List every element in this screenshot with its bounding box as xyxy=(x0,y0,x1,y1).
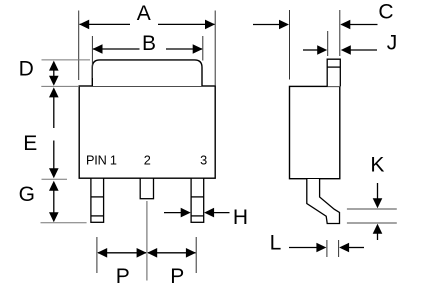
side view mounting tab xyxy=(327,59,340,86)
svg-text:K: K xyxy=(370,154,384,177)
side view package body xyxy=(290,86,340,178)
dimension P arrows xyxy=(97,248,196,258)
dimension D extension lines xyxy=(41,60,90,87)
pin 2 center line xyxy=(146,201,148,281)
dimension H arrows xyxy=(164,208,230,218)
svg-text:D: D xyxy=(19,57,34,80)
svg-text:L: L xyxy=(270,232,282,255)
dimension L arrows xyxy=(289,243,364,253)
svg-text:H: H xyxy=(233,206,248,229)
svg-text:C: C xyxy=(378,1,393,24)
pin 2 lead xyxy=(140,178,153,199)
pin 3 lead xyxy=(191,178,204,222)
front view mounting tab xyxy=(92,60,202,86)
dimension J extension line xyxy=(327,31,329,56)
dimension A arrows xyxy=(80,23,215,25)
svg-text:P: P xyxy=(170,265,184,285)
pin 1 lead xyxy=(91,178,104,222)
dimension K arrows xyxy=(373,183,383,240)
dimension J arrows xyxy=(303,45,377,55)
svg-text:P: P xyxy=(116,265,130,285)
dimension P extension lines xyxy=(97,237,196,273)
dimension C extension lines xyxy=(290,10,340,80)
dimension D arrows xyxy=(49,61,59,86)
svg-text:A: A xyxy=(137,2,151,25)
svg-text:3: 3 xyxy=(200,154,207,168)
svg-text:PIN 1: PIN 1 xyxy=(86,154,117,168)
dimension L extension lines xyxy=(327,240,339,257)
dimension G extension lines xyxy=(41,179,87,223)
svg-text:2: 2 xyxy=(144,154,151,168)
svg-text:J: J xyxy=(387,32,398,55)
side view lead xyxy=(307,179,340,224)
svg-text:B: B xyxy=(142,32,156,55)
svg-text:E: E xyxy=(23,132,37,155)
dimension A extension lines xyxy=(79,11,216,87)
side view tab inner line xyxy=(327,66,340,68)
svg-text:G: G xyxy=(19,183,35,206)
dimension B arrows xyxy=(93,48,202,50)
front view package body xyxy=(79,86,215,178)
dimension C arrows xyxy=(253,20,378,30)
dimension B extension lines xyxy=(92,36,202,78)
dimension E arrows xyxy=(49,87,59,178)
dimension G arrows xyxy=(49,181,59,223)
dimension K extension lines xyxy=(347,209,397,223)
